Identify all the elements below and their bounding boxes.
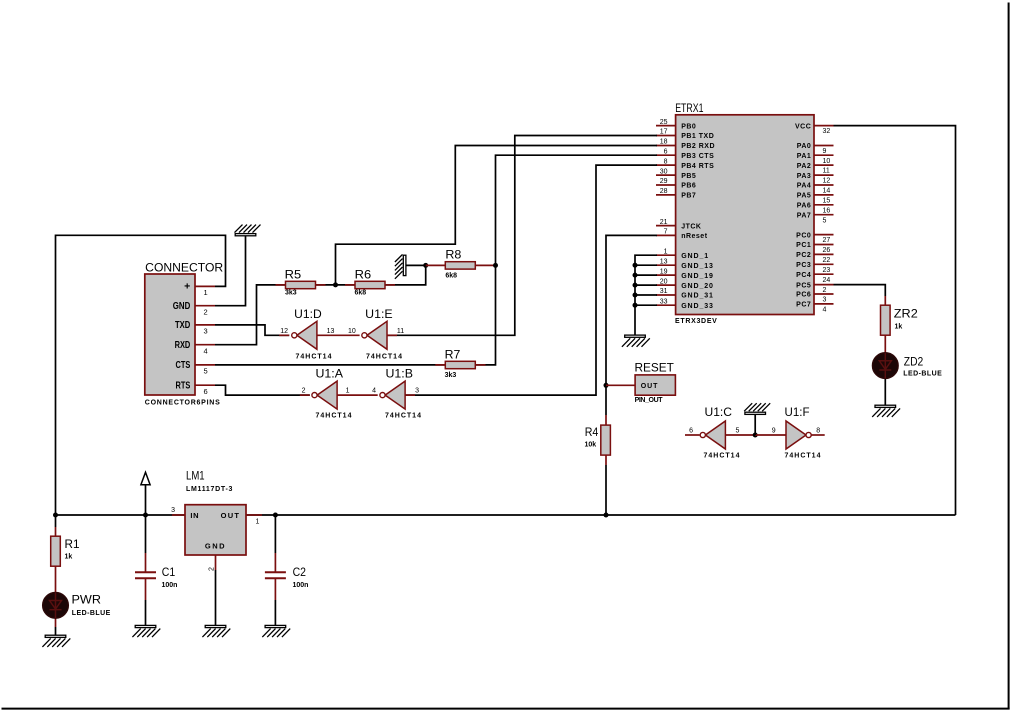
svg-text:8: 8 <box>816 427 820 434</box>
svg-text:3: 3 <box>171 507 175 514</box>
svg-text:nReset: nReset <box>681 233 708 240</box>
svg-text:U1:F: U1:F <box>785 407 810 419</box>
svg-text:PA1: PA1 <box>797 153 812 160</box>
pin segment U1:B input <box>405 394 415 396</box>
svg-text:6: 6 <box>664 148 668 155</box>
ETRX1 left pin numbers <box>660 119 668 306</box>
ETRX1 right pin stubs <box>814 126 834 304</box>
wire rail to C2 <box>274 515 276 572</box>
svg-text:RTS: RTS <box>176 380 191 392</box>
svg-text:3: 3 <box>823 297 827 304</box>
svg-text:ZD2: ZD2 <box>904 357 924 369</box>
svg-text:32: 32 <box>823 128 831 135</box>
pin segment U1:E input <box>387 334 397 336</box>
wire U1:C output stub <box>685 434 700 436</box>
svg-text:9: 9 <box>772 427 776 434</box>
svg-text:R7: R7 <box>445 349 461 361</box>
resistor R8 <box>445 250 475 280</box>
inverter U1:C <box>700 407 740 460</box>
wire LM1 GND pin to ground <box>215 555 217 625</box>
svg-text:R8: R8 <box>445 250 461 262</box>
wire rail to C1 <box>145 515 147 572</box>
sheet border right <box>1008 3 1010 710</box>
wire V+ rail left segment <box>56 514 186 516</box>
ground G5 (PWR led) <box>42 635 70 647</box>
svg-text:PB4 RTS: PB4 RTS <box>681 163 714 170</box>
pin number 2 (U1:A out) <box>302 388 306 395</box>
wire R5 right to R6 left <box>316 284 356 286</box>
svg-text:74HCT14: 74HCT14 <box>704 453 741 460</box>
inverter U1:B <box>380 369 422 420</box>
svg-text:74HCT14: 74HCT14 <box>316 413 353 420</box>
led PWR <box>43 593 111 619</box>
svg-text:21: 21 <box>660 219 668 226</box>
svg-text:LM1: LM1 <box>186 471 205 483</box>
node U1:C/U1:F ground junction <box>753 433 758 438</box>
pin number 5 (U1:C in) <box>736 427 740 434</box>
svg-text:PC4: PC4 <box>796 272 811 279</box>
svg-text:10: 10 <box>348 328 356 335</box>
resistor R7 <box>445 349 476 379</box>
svg-text:4: 4 <box>204 346 208 355</box>
svg-text:GND_1: GND_1 <box>681 253 709 260</box>
svg-text:PC3: PC3 <box>796 262 811 269</box>
pin segment U1:D output <box>279 334 289 336</box>
wire R8 right to CTS line <box>476 264 496 266</box>
pin number 9 (U1:F in) <box>772 427 776 434</box>
pin number 8 (U1:F out) <box>816 427 820 434</box>
svg-text:1k: 1k <box>65 554 73 561</box>
wire U1:A in to U1:B out <box>337 394 378 396</box>
svg-text:13: 13 <box>327 328 335 335</box>
resistor R6 <box>355 270 386 297</box>
node R6/R8/ground junction <box>423 263 428 268</box>
wire ETRX GND bus <box>635 255 657 335</box>
svg-text:PA7: PA7 <box>797 212 812 219</box>
svg-text:1: 1 <box>256 518 260 525</box>
svg-text:3k3: 3k3 <box>445 372 457 379</box>
svg-text:GND_13: GND_13 <box>681 263 714 270</box>
resistor ZR2 <box>881 305 918 335</box>
svg-text:PIN_OUT: PIN_OUT <box>635 397 664 404</box>
connector J1 body <box>145 263 223 407</box>
wire ground to R8 node <box>406 264 426 266</box>
svg-text:29: 29 <box>660 178 668 185</box>
svg-text:CONNECTOR: CONNECTOR <box>145 263 223 275</box>
inverter U1:E <box>362 309 403 361</box>
svg-text:C1: C1 <box>162 567 175 579</box>
wire ground stem (U1 spare) <box>754 414 756 435</box>
node R5/R6 junction <box>333 282 338 287</box>
svg-text:24: 24 <box>823 277 831 284</box>
svg-text:4: 4 <box>372 388 376 395</box>
node GND_19 junction <box>633 273 638 278</box>
svg-text:6: 6 <box>689 427 693 434</box>
wire U1:C in to ground node <box>725 434 755 436</box>
node V+ rail / R1 junction <box>53 513 58 518</box>
svg-text:3k3: 3k3 <box>285 289 297 296</box>
node V+ rail / C1 junction <box>143 513 148 518</box>
svg-text:R1: R1 <box>65 539 80 551</box>
ground G7 (LM1) <box>202 625 230 637</box>
pin number 13 (U1:D in) <box>327 328 335 335</box>
svg-text:PB5: PB5 <box>681 173 696 180</box>
svg-text:15: 15 <box>823 198 831 205</box>
svg-text:3: 3 <box>415 388 419 395</box>
wire R1 to PWR led <box>55 566 57 593</box>
ETRX1 left pin names <box>681 123 715 310</box>
svg-text:2: 2 <box>204 307 208 316</box>
svg-text:PC7: PC7 <box>796 302 811 309</box>
ETRX1 left pin stubs <box>656 126 676 306</box>
svg-text:PC5: PC5 <box>796 282 811 289</box>
svg-text:C2: C2 <box>293 567 306 579</box>
svg-text:RESET: RESET <box>635 363 674 375</box>
wire connector GND to ground <box>215 236 246 306</box>
wire connector + to V+ rail <box>56 235 226 515</box>
svg-text:31: 31 <box>660 288 668 295</box>
svg-text:+: + <box>184 281 190 293</box>
svg-text:8: 8 <box>664 158 668 165</box>
svg-text:13: 13 <box>660 258 668 265</box>
svg-text:U1:D: U1:D <box>294 309 322 321</box>
wire C1 to ground <box>145 578 147 625</box>
svg-text:10k: 10k <box>585 442 597 449</box>
wire ETRX PC5 to ZR2 <box>834 285 886 306</box>
svg-text:PA5: PA5 <box>797 193 812 200</box>
wire C2 to ground <box>274 578 276 625</box>
svg-text:GND_19: GND_19 <box>681 273 714 280</box>
wire ETRX VCC to V+ rail <box>834 126 956 515</box>
svg-text:22: 22 <box>823 257 831 264</box>
wire connector RTS to U1:A out <box>215 385 310 395</box>
sheet border bottom <box>2 708 1010 710</box>
ground G6 (C1) <box>132 625 160 637</box>
svg-text:100n: 100n <box>293 582 309 589</box>
svg-text:28: 28 <box>660 188 668 195</box>
svg-text:JTCK: JTCK <box>681 223 701 230</box>
pin number 3 (U1:B in) <box>415 388 419 395</box>
svg-text:74HCT14: 74HCT14 <box>785 453 822 460</box>
svg-text:74HCT14: 74HCT14 <box>366 354 403 361</box>
svg-text:27: 27 <box>823 237 831 244</box>
pin segments R7 <box>435 364 485 366</box>
svg-text:16: 16 <box>823 207 831 214</box>
LM1 OUT pin stub <box>246 514 262 516</box>
svg-text:PB6: PB6 <box>681 183 696 190</box>
svg-text:1k: 1k <box>895 323 903 330</box>
node GND_13 junction <box>633 263 638 268</box>
power flag VCC arrow <box>141 472 150 515</box>
node nReset/RESET junction <box>604 383 609 388</box>
svg-text:7: 7 <box>664 229 668 236</box>
svg-text:CONNECTOR6PINS: CONNECTOR6PINS <box>145 400 221 407</box>
svg-text:LED-BLUE: LED-BLUE <box>903 370 942 377</box>
reset terminal block <box>635 363 676 404</box>
wire RESET OUT pin <box>606 384 635 386</box>
svg-text:PWR: PWR <box>72 595 102 607</box>
ground G4 (ZD2) <box>872 405 900 417</box>
svg-text:ETRX1: ETRX1 <box>675 103 703 115</box>
wire U1:F output stub <box>811 434 825 436</box>
svg-text:1: 1 <box>664 248 668 255</box>
svg-text:IN: IN <box>190 511 199 520</box>
svg-text:PB0: PB0 <box>681 123 696 130</box>
svg-text:PB1 TXD: PB1 TXD <box>681 133 714 140</box>
svg-text:10: 10 <box>823 158 831 165</box>
svg-text:PC1: PC1 <box>796 242 811 249</box>
wire connector TXD to U1:D out <box>215 325 289 335</box>
svg-text:R4: R4 <box>585 427 599 439</box>
svg-text:ZR2: ZR2 <box>894 309 918 321</box>
capacitor C2 <box>265 567 309 589</box>
resistor R4 <box>585 425 611 455</box>
svg-text:100n: 100n <box>162 582 178 589</box>
wire ZD2 to ground <box>884 378 886 405</box>
svg-text:6: 6 <box>204 387 208 396</box>
svg-text:11: 11 <box>397 328 404 335</box>
wire R5 node to ETRX PB2 RXD <box>336 146 658 285</box>
ETRX1 right pin numbers <box>823 128 831 313</box>
svg-text:GND: GND <box>205 541 226 550</box>
svg-text:5: 5 <box>823 217 827 224</box>
pin number 6 (U1:C out) <box>689 427 693 434</box>
connector J1 pin stubs <box>195 286 215 385</box>
svg-text:CTS: CTS <box>176 359 191 371</box>
svg-text:11: 11 <box>823 168 830 175</box>
inverter U1:F <box>785 407 822 460</box>
svg-text:ETRX3DEV: ETRX3DEV <box>675 318 718 325</box>
svg-text:12: 12 <box>823 178 831 185</box>
svg-text:GND: GND <box>173 300 191 312</box>
svg-text:PB3 CTS: PB3 CTS <box>681 153 714 160</box>
svg-text:PB2 RXD: PB2 RXD <box>681 143 715 150</box>
svg-text:5: 5 <box>204 367 208 376</box>
ETRX1 right pin names <box>795 123 811 308</box>
IC U1 body ETRX1 <box>675 103 814 325</box>
ground G1 (connector GND) <box>235 225 261 236</box>
LM1 IN pin stub <box>172 514 185 516</box>
pin segment U1:A output <box>300 394 310 396</box>
wire ETRX nReset to R4 <box>606 235 657 425</box>
connector J1 pin names <box>173 281 191 392</box>
svg-text:TXD: TXD <box>175 319 191 331</box>
wire U1:B in to ETRX PB4 RTS <box>405 165 657 395</box>
svg-text:18: 18 <box>660 139 668 146</box>
svg-text:74HCT14: 74HCT14 <box>296 354 333 361</box>
svg-text:PA3: PA3 <box>797 173 812 180</box>
wire PWR led to ground <box>55 618 57 635</box>
svg-text:26: 26 <box>823 247 831 254</box>
svg-text:5: 5 <box>736 427 740 434</box>
svg-text:GND_31: GND_31 <box>681 293 714 300</box>
wire R6 to R8 node <box>385 265 426 285</box>
svg-text:PC0: PC0 <box>796 232 811 239</box>
pin number 10 (U1:E out) <box>348 328 356 335</box>
wire connector RXD to R5 <box>215 285 286 345</box>
svg-text:RXD: RXD <box>175 339 191 351</box>
svg-text:12: 12 <box>280 328 288 335</box>
node GND_33 junction <box>633 303 638 308</box>
connector J1 pin numbers <box>204 288 208 396</box>
capacitor C1 <box>135 567 177 589</box>
pin number 1 (LM1 OUT) <box>256 518 260 525</box>
svg-text:25: 25 <box>660 119 668 126</box>
svg-text:PA0: PA0 <box>797 143 812 150</box>
ground G8 (C2) <box>262 625 290 637</box>
svg-text:3: 3 <box>204 327 208 336</box>
svg-text:2: 2 <box>302 388 306 395</box>
svg-text:PC6: PC6 <box>796 292 811 299</box>
svg-text:14: 14 <box>823 188 831 195</box>
svg-text:23: 23 <box>823 267 831 274</box>
pin number 11 (U1:E in) <box>397 328 404 335</box>
wire node to R8 left <box>426 264 446 266</box>
svg-text:2: 2 <box>823 287 827 294</box>
svg-text:19: 19 <box>660 268 668 275</box>
regulator LM1 body <box>185 471 246 555</box>
node V+ rail / R4 junction <box>604 513 609 518</box>
wire V+ rail right segment <box>246 514 956 516</box>
inverter U1:A <box>312 369 353 420</box>
svg-text:1: 1 <box>204 288 208 297</box>
node GND_31 junction <box>633 293 638 298</box>
ground G9 (U1 spare inputs) <box>744 403 770 414</box>
svg-text:PC2: PC2 <box>796 252 811 259</box>
svg-text:17: 17 <box>660 129 668 136</box>
svg-text:1: 1 <box>346 388 350 395</box>
wire R7 to ETRX PB3 CTS <box>476 155 658 365</box>
wire connector CTS to R7 <box>215 364 445 366</box>
svg-text:PA6: PA6 <box>797 203 812 210</box>
pin number 4 (U1:B out) <box>372 388 376 395</box>
svg-text:LED-BLUE: LED-BLUE <box>72 610 111 617</box>
svg-text:OUT: OUT <box>641 383 658 390</box>
svg-text:30: 30 <box>660 168 668 175</box>
svg-text:PB7: PB7 <box>681 193 696 200</box>
svg-text:2: 2 <box>208 567 215 571</box>
svg-text:PA4: PA4 <box>797 183 812 190</box>
resistor R5 <box>285 270 316 297</box>
svg-text:4: 4 <box>823 307 827 314</box>
ground G3 (ETRX GND bus) <box>622 335 650 347</box>
svg-text:33: 33 <box>660 298 668 305</box>
svg-text:PA2: PA2 <box>797 163 812 170</box>
node V+ rail / C2 / LM1 OUT junction <box>273 513 278 518</box>
wire R4 to V+ rail <box>605 455 607 515</box>
pin number 3 (LM1 IN) <box>171 507 175 514</box>
node GND_20 junction <box>633 283 638 288</box>
svg-text:6k8: 6k8 <box>355 289 367 296</box>
node R8/PB3 junction <box>493 263 498 268</box>
svg-text:U1:C: U1:C <box>705 407 733 419</box>
svg-text:9: 9 <box>823 148 827 155</box>
svg-text:R6: R6 <box>355 270 372 282</box>
svg-text:R5: R5 <box>285 270 302 282</box>
svg-text:OUT: OUT <box>221 511 241 520</box>
wire U1:D in to U1:E out <box>317 334 360 336</box>
svg-text:GND_33: GND_33 <box>681 303 714 310</box>
resistor R1 <box>51 536 80 566</box>
wire ground node to U1:F in <box>755 434 786 436</box>
pin number 1 (U1:A in) <box>346 388 350 395</box>
pin segments R5 <box>276 284 326 286</box>
wire rail to R1 <box>55 515 57 536</box>
pin number 2 (LM1 GND) <box>208 567 215 571</box>
inverter U1:D <box>292 309 333 361</box>
svg-text:U1:B: U1:B <box>386 369 414 381</box>
svg-text:U1:E: U1:E <box>365 309 393 321</box>
svg-text:6k8: 6k8 <box>445 272 457 279</box>
svg-text:VCC: VCC <box>795 123 811 130</box>
pin segments R6 <box>345 284 395 286</box>
led ZD2 <box>873 353 943 379</box>
ground G2 (R8 node, rotated) <box>395 254 406 278</box>
svg-text:20: 20 <box>660 278 668 285</box>
svg-text:LM1117DT-3: LM1117DT-3 <box>186 486 233 493</box>
svg-text:U1:A: U1:A <box>316 369 344 381</box>
wire U1:E in to ETRX PB1 TXD <box>387 136 657 336</box>
svg-text:GND_20: GND_20 <box>681 283 714 290</box>
pin number 12 (U1:D out) <box>280 328 288 335</box>
svg-text:74HCT14: 74HCT14 <box>385 413 422 420</box>
wire ZR2 to ZD2 <box>884 335 886 353</box>
